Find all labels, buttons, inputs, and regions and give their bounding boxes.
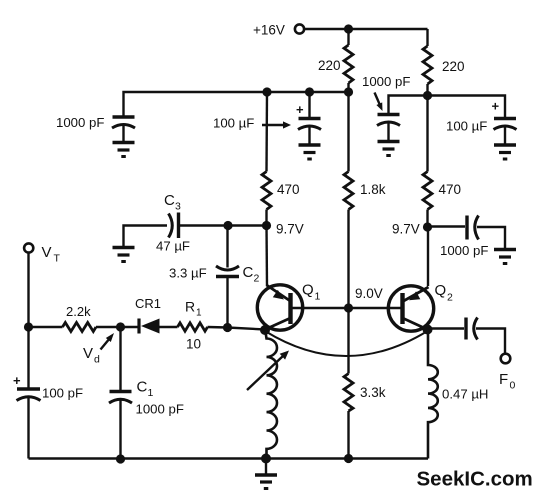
node R1-C2 junction (223, 323, 232, 332)
svg-text:470: 470 (277, 182, 300, 197)
node rail-220 right (423, 91, 432, 100)
node top junction (344, 24, 353, 33)
ground C3 (113, 248, 135, 262)
capacitor output (466, 318, 478, 340)
svg-text:3: 3 (175, 201, 181, 213)
wire 9.7V right to cap (428, 225, 466, 227)
terminal +16V (253, 23, 304, 38)
wire 9.7V left to Q1 (265, 226, 268, 287)
inductor variable below Q1 (247, 332, 289, 459)
svg-text:C: C (137, 379, 148, 396)
wire bottom rail (29, 457, 429, 459)
ground 100uF right (494, 145, 516, 159)
capacitor C3 47uF (156, 192, 190, 254)
svg-text:1: 1 (148, 387, 154, 399)
inductor 0.47uH (428, 330, 488, 459)
svg-text:C: C (243, 264, 254, 281)
svg-text:1000 pF: 1000 pF (56, 115, 104, 130)
svg-text:100 µF: 100 µF (446, 119, 487, 134)
ground 1000pF middle (378, 142, 400, 156)
node 9.7V left (262, 221, 304, 237)
terminal VT (24, 243, 60, 264)
node Q1 emitter junction (260, 325, 270, 335)
resistor 470 right (423, 96, 461, 228)
svg-text:Q: Q (302, 282, 314, 299)
node C1 bottom (116, 454, 125, 463)
resistor 2.2k (29, 304, 121, 332)
wire C3 to node (179, 224, 267, 226)
resistor 470 left (262, 92, 300, 226)
svg-text:47 µF: 47 µF (156, 239, 190, 254)
svg-text:1.8k: 1.8k (360, 182, 386, 197)
svg-text:+: + (492, 99, 500, 114)
resistor R1 10 (178, 299, 266, 352)
wire arc Q1-Q2 (265, 331, 428, 356)
wire top supply (305, 28, 428, 30)
wire Q2 to 9.7V right (427, 227, 429, 286)
capacitor 100uF left (213, 92, 321, 145)
svg-text:2.2k: 2.2k (66, 304, 91, 319)
wire VT down (27, 253, 29, 328)
svg-text:10: 10 (186, 337, 201, 352)
node Vd (83, 322, 125, 365)
node Q2 emitter junction (423, 325, 433, 335)
svg-text:C: C (164, 192, 175, 209)
resistor 220 left (318, 29, 353, 93)
svg-text:220: 220 (318, 58, 341, 73)
transistor Q2 (388, 282, 453, 331)
diode CR1 (121, 296, 178, 334)
capacitor 1000pF top-left (56, 115, 135, 143)
resistor 220 right (423, 46, 465, 96)
svg-text:9.0V: 9.0V (355, 286, 383, 301)
svg-text:T: T (54, 253, 61, 265)
svg-text:9.7V: 9.7V (276, 222, 304, 237)
svg-text:220: 220 (442, 59, 465, 74)
svg-text:+: + (13, 373, 21, 388)
svg-text:1000 pF: 1000 pF (362, 74, 410, 89)
terminal F0 (499, 354, 516, 392)
svg-text:1000 pF: 1000 pF (440, 243, 488, 258)
svg-text:V: V (42, 244, 52, 261)
transistor Q1 (257, 282, 320, 331)
capacitor C1 1000pF (109, 327, 184, 459)
node rail-100uF left (305, 87, 314, 96)
svg-text:F: F (499, 371, 508, 388)
resistor 1.8k (344, 92, 386, 308)
node 9.0V (344, 286, 383, 313)
capacitor 1000pF middle (362, 74, 410, 142)
wire right rail (389, 96, 506, 119)
wire left rail (124, 92, 349, 117)
svg-text:3.3 µF: 3.3 µF (169, 266, 207, 281)
svg-text:+: + (296, 102, 304, 117)
ground 100uF left (299, 145, 321, 159)
wire Q2 output row (428, 327, 465, 329)
svg-text:0.47 µH: 0.47 µH (442, 387, 488, 402)
capacitor 100uF right (446, 99, 517, 146)
svg-text:2: 2 (447, 292, 453, 304)
ground 1000pF right (494, 250, 516, 264)
capacitor C2 3.3uF (169, 226, 260, 328)
svg-text:+16V: +16V (253, 23, 285, 38)
ground main (255, 459, 277, 489)
svg-text:2: 2 (254, 273, 260, 285)
node 9.7V right (392, 222, 432, 237)
svg-text:d: d (94, 354, 100, 366)
svg-text:1: 1 (196, 308, 202, 319)
svg-text:9.7V: 9.7V (392, 222, 420, 237)
node VT junction (24, 322, 33, 331)
wire to F0 (476, 329, 505, 354)
node C3-C2 junction (223, 221, 232, 230)
svg-text:0: 0 (510, 380, 516, 392)
node ground junction (261, 454, 271, 464)
capacitor 1000pF right (440, 216, 488, 259)
svg-text:1000 pF: 1000 pF (136, 402, 184, 417)
wire cap to ground right (477, 227, 505, 250)
node 3.3k bottom (344, 454, 353, 463)
node rail-470 left (262, 87, 271, 96)
svg-text:SeekIC.com: SeekIC.com (417, 468, 533, 491)
wire C3 row (124, 226, 168, 248)
svg-text:470: 470 (439, 182, 462, 197)
wire right supply drop (426, 29, 428, 46)
svg-text:V: V (83, 345, 93, 362)
resistor 3.3k (344, 308, 386, 459)
svg-text:R: R (185, 299, 195, 315)
svg-text:100 µF: 100 µF (213, 116, 254, 131)
node rail-220 left (344, 87, 353, 96)
svg-text:CR1: CR1 (135, 296, 161, 311)
ground 1000pF top-left (113, 143, 135, 157)
capacitor 100pF VT (13, 327, 83, 459)
svg-text:100 pF: 100 pF (42, 386, 83, 401)
svg-text:3.3k: 3.3k (360, 385, 386, 400)
wire base rail (293, 307, 401, 309)
svg-text:Q: Q (435, 282, 447, 299)
svg-text:1: 1 (315, 291, 321, 303)
